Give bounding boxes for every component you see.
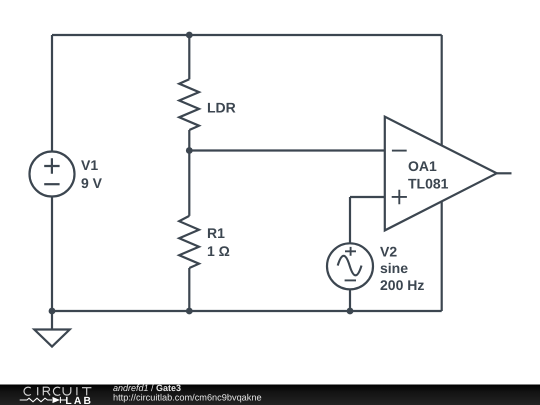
node A (LDR/R1/op-amp): [186, 147, 193, 154]
svg-text:200 Hz: 200 Hz: [380, 277, 424, 293]
footer bar: [0, 385, 540, 405]
wire top rail: [52, 34, 442, 36]
label V2 sine 200Hz: [380, 243, 424, 293]
label OA1 TL081: [408, 158, 449, 191]
svg-text:1 Ω: 1 Ω: [207, 243, 230, 259]
svg-text:V2: V2: [380, 243, 397, 259]
wire op-amp output: [497, 172, 512, 174]
CircuitLab logo LAB: [65, 396, 93, 405]
label R1 1ohm: [207, 225, 230, 259]
svg-text:OA1: OA1: [408, 158, 437, 174]
footer url: [113, 393, 262, 403]
wire V2 bottom to node: [349, 289, 351, 311]
svg-text:LAB: LAB: [65, 396, 93, 405]
voltage source V1: [30, 152, 75, 197]
svg-text:andrefd1 / Gate3: andrefd1 / Gate3: [113, 383, 181, 393]
svg-text:http://circuitlab.com/cm6nc9bv: http://circuitlab.com/cm6nc9bvqakne: [113, 393, 262, 403]
wire V1 minus to bottom rail: [51, 197, 53, 312]
svg-text:LDR: LDR: [207, 100, 236, 116]
wire top rail to LDR: [188, 35, 190, 79]
CircuitLab logo resistor-diode icon: [20, 397, 67, 403]
svg-text:R1: R1: [207, 225, 225, 241]
footer author / title: [113, 383, 181, 393]
label LDR: [207, 100, 236, 116]
resistor R1: [179, 216, 199, 268]
CircuitLab logo CIRCUIT: [24, 387, 91, 395]
wire V2 top: [349, 197, 351, 243]
wire op-amp V+ supply drop: [441, 35, 443, 146]
voltage source V2: [327, 243, 373, 289]
wire bottom rail: [52, 310, 442, 312]
wire op-amp V- supply rise: [441, 202, 443, 312]
wire R1 to bottom rail: [188, 268, 190, 311]
wire node A to R1: [188, 151, 190, 216]
wire op-amp non-inverting input to V2 branch: [350, 196, 385, 198]
svg-text:TL081: TL081: [408, 175, 449, 191]
wire node A to op-amp inverting input: [189, 149, 384, 151]
label V1 9V: [81, 157, 103, 191]
ground: [34, 311, 69, 347]
resistor LDR: [179, 79, 199, 130]
op-amp OA1: [385, 117, 497, 231]
wire LDR to node A: [188, 130, 190, 151]
svg-text:9 V: 9 V: [81, 175, 103, 191]
node top rail / LDR junction: [186, 32, 193, 39]
svg-text:sine: sine: [380, 260, 408, 276]
node V2 bottom rail junction: [347, 308, 354, 315]
node R1 bottom rail junction: [186, 308, 193, 315]
node ground junction: [49, 308, 56, 315]
wire left rail top (V1 plus to top rail): [51, 35, 53, 152]
svg-text:V1: V1: [81, 157, 98, 173]
